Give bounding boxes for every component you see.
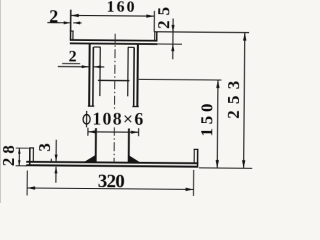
arrowhead 320 right — [186, 188, 194, 191]
arrowhead 2 sleeve converge right — [94, 65, 101, 68]
leader lines for 2 (sleeve thickness) — [58, 66, 104, 68]
underline of label 2 (lip) — [47, 22, 60, 24]
arrowhead 253 down — [242, 160, 245, 168]
extension line right of 160 — [153, 11, 155, 32]
base right lip — [197, 149, 199, 166]
arrowhead 25 down — [171, 25, 174, 32]
weld fillet left — [84, 155, 96, 162]
pipe lower walls — [95, 128, 97, 162]
dimension line 160 — [71, 14, 155, 17]
dimension line 320 — [27, 188, 193, 189]
top channel right lip — [154, 32, 156, 40]
centerline — [114, 34, 115, 162]
arrowhead 3 up — [54, 167, 57, 174]
extension line plate bottom — [157, 43, 182, 45]
arrowhead 150 up — [216, 80, 219, 88]
svg-text:150: 150 — [197, 103, 216, 136]
dimension line 253 — [244, 33, 245, 169]
arrowhead 2 sleeve converge left — [82, 65, 89, 68]
right lip top cap + extension line to 253 dim — [154, 31, 249, 34]
arrowhead 160 right — [146, 14, 154, 17]
phi symbol stem — [86, 111, 88, 127]
svg-text:253: 253 — [224, 81, 243, 119]
dimension line 150 — [216, 80, 219, 168]
svg-text:320: 320 — [98, 171, 125, 192]
base left lip — [29, 148, 31, 165]
extension lines 320 — [27, 168, 194, 196]
pipe upper inner walls + hooks — [93, 47, 100, 96]
underline of label 2 (sleeve) — [62, 63, 80, 65]
svg-text:3: 3 — [35, 143, 54, 152]
weld fillet right — [129, 155, 141, 162]
arrowhead 28 up — [18, 148, 21, 154]
arrowhead 253 up — [243, 33, 246, 41]
extension line pipe top — [139, 78, 222, 81]
dimension lines — [15, 10, 253, 198]
step mark near left weld — [50, 159, 52, 162]
dimension line 3 (base thickness) — [55, 140, 57, 183]
pipe top end line — [98, 79, 129, 81]
text mask — [84, 109, 144, 128]
svg-text:160: 160 — [107, 0, 135, 16]
arrowhead 3 down — [55, 155, 58, 162]
arrowhead 320 left — [27, 186, 35, 189]
extension ticks phi108 — [88, 128, 139, 136]
sleeve right wall — [136, 45, 139, 107]
arrowhead phi108 right — [131, 131, 139, 134]
dimension line 28 — [18, 148, 20, 166]
dimension line phi108x6 — [88, 131, 139, 133]
arrowhead 2 top-left converge right — [73, 21, 80, 24]
top channel left lip — [70, 10, 72, 40]
arrowhead 28 down — [18, 160, 21, 166]
svg-text:108×6: 108×6 — [92, 108, 143, 128]
extension line base bottom right — [199, 167, 252, 169]
phi symbol circle — [83, 115, 90, 124]
arrowhead 2 top-left converge left — [64, 21, 71, 24]
sleeve left wall — [88, 44, 91, 106]
arrowhead 25 up — [171, 44, 174, 51]
arrowhead phi108 left — [88, 130, 96, 133]
arrowhead 150 down — [216, 160, 219, 168]
svg-text:2: 2 — [69, 48, 77, 65]
extension lines 28 — [16, 148, 29, 166]
base plate — [26, 162, 198, 164]
dimension line 25 — [172, 19, 174, 60]
leader lines for 2 (lip thickness) — [47, 22, 81, 24]
arrowhead 160 left — [71, 14, 79, 17]
top channel plate — [70, 40, 158, 44]
faint scan edge — [0, 0, 1, 203]
